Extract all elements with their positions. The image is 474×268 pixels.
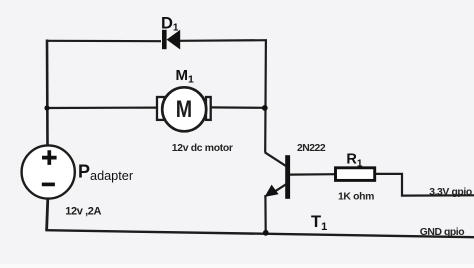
- svg-text:D1: D1: [161, 14, 179, 33]
- wire: top rail: [46, 40, 267, 41]
- collector lead: [265, 152, 286, 166]
- emitter lead with arrow: [270, 184, 286, 194]
- svg-text:12v ,2A: 12v ,2A: [65, 205, 101, 217]
- wire: emitter to ground junction: [264, 195, 267, 233]
- svg-text:12v dc motor: 12v dc motor: [172, 143, 233, 154]
- source P_adapter: [22, 145, 75, 198]
- svg-text:M1: M1: [176, 67, 195, 86]
- motor M1: [157, 87, 211, 131]
- wire: source bottom lead: [47, 199, 48, 232]
- wire: ground rail: [46, 230, 474, 237]
- svg-text:Padapter: Padapter: [78, 162, 134, 183]
- wire: motor branch right: [210, 106, 265, 109]
- resistor R1: [336, 168, 375, 181]
- svg-text:3.3V gpio: 3.3V gpio: [429, 187, 472, 198]
- diode D1: [162, 30, 180, 50]
- wire: transistor base to resistor: [290, 173, 336, 176]
- svg-text:GND gpio: GND gpio: [420, 227, 464, 238]
- wire: motor branch left: [47, 106, 158, 109]
- wire: left vertical (top rail to source top lead): [46, 40, 49, 146]
- wire: right vertical rail (top rail to collector): [264, 40, 267, 153]
- transistor T1 (2N222): [265, 152, 291, 198]
- svg-text:2N222: 2N222: [297, 143, 326, 154]
- node: emitter / ground junction: [263, 230, 269, 236]
- svg-text:1K ohm: 1K ohm: [338, 192, 374, 203]
- svg-text:M: M: [176, 95, 192, 122]
- svg-text:R1: R1: [346, 151, 362, 169]
- node: right rail / motor branch junction: [262, 105, 268, 111]
- svg-text:T1: T1: [311, 213, 327, 233]
- node: left rail / motor branch junction: [44, 105, 49, 110]
- wire: resistor to 3.3V gpio pin: [375, 174, 474, 196]
